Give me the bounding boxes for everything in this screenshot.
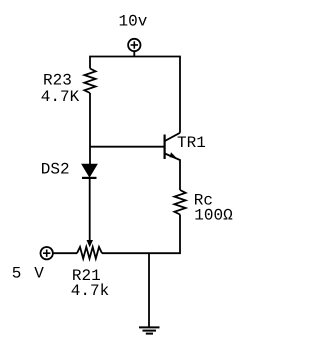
svg-text:10v: 10v xyxy=(119,12,148,30)
wire: 5V symbol to R21 xyxy=(53,252,77,254)
resistor Rc xyxy=(174,190,185,215)
power supply 5V circle-plus symbol xyxy=(41,247,53,259)
wire: Rc bottom to lower rail xyxy=(102,215,180,254)
svg-text:V: V xyxy=(34,265,44,283)
svg-text:4.7K: 4.7K xyxy=(41,88,80,106)
svg-text:TR1: TR1 xyxy=(177,134,206,152)
ground xyxy=(139,327,160,333)
svg-text:4.7k: 4.7k xyxy=(71,282,109,300)
label R21 4.7k xyxy=(71,267,109,300)
wire: left rail from R23 to diode xyxy=(89,93,91,164)
label Rc 100ohm xyxy=(194,191,233,224)
svg-text:R23: R23 xyxy=(43,71,72,89)
wire: ground stem xyxy=(148,253,150,327)
resistor R21 xyxy=(77,247,102,259)
label R23 4.7K xyxy=(41,71,80,106)
label TR1 xyxy=(177,134,206,152)
resistor R23 xyxy=(84,69,95,94)
power supply V1 10v circle-plus symbol xyxy=(128,39,140,51)
svg-text:5: 5 xyxy=(12,265,22,283)
value label 10v xyxy=(119,12,148,30)
node: base junction wire to transistor xyxy=(90,146,164,148)
wire: diode cathode down to R21 with arrow xyxy=(87,179,94,248)
wire: top horizontal rail xyxy=(90,57,180,133)
label 5 V xyxy=(12,265,45,283)
wire: power stem from 10v symbol to top rail xyxy=(133,51,135,56)
svg-text:100Ω: 100Ω xyxy=(194,206,233,224)
label DS2 xyxy=(41,160,70,178)
svg-text:DS2: DS2 xyxy=(41,160,70,178)
transistor TR1 xyxy=(165,133,180,190)
diode DS2 xyxy=(82,164,97,178)
